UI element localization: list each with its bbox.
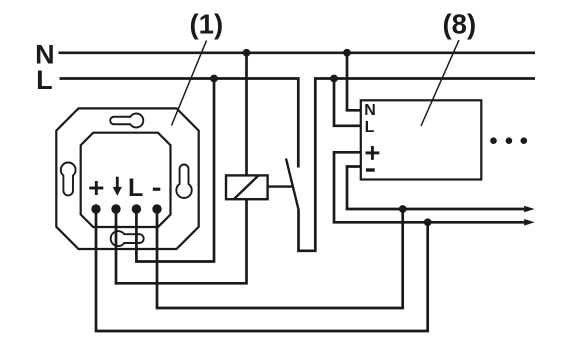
junction on N bus at driver drop: [343, 49, 351, 57]
relay contact lever: [286, 159, 299, 210]
wire N bus to relay coil: [245, 53, 248, 176]
svg-text:L: L: [36, 65, 53, 95]
relay K1 actuator link: [268, 185, 294, 187]
driver pin label minus: [366, 168, 375, 171]
wire dimmer minus to bus minus: [157, 209, 403, 308]
junction plus bus / dimmer plus: [424, 218, 432, 226]
wire dimmer arrow output to relay coil: [116, 199, 247, 283]
arrowhead plus bus: [524, 219, 534, 226]
svg-text:L: L: [365, 119, 375, 136]
relay K1 coil: [226, 175, 268, 199]
wire N bus: [59, 51, 536, 54]
terminal dot pin 4: [152, 204, 161, 213]
svg-text:N: N: [364, 102, 376, 119]
ellipsis dot 2: [506, 137, 513, 144]
terminal label + (pin 1): [89, 181, 103, 195]
wire L bus: [60, 79, 299, 168]
mounting keyhole left: [61, 162, 76, 195]
wire driver plus to plus bus: [334, 152, 525, 222]
wire driver minus to minus bus: [347, 167, 525, 210]
svg-text:(1): (1): [190, 9, 224, 40]
terminal dot pin 2: [111, 204, 120, 213]
mounting keyhole right: [176, 165, 191, 198]
control unit (1) inner frame: [81, 133, 171, 227]
mounting keyhole bottom: [111, 231, 144, 246]
junction on L bus at dimmer drop: [210, 75, 218, 83]
ellipsis dot 3: [521, 137, 528, 144]
control unit (1) outer frame: [56, 108, 198, 249]
terminal label arrow-down (pin 2): [113, 177, 122, 196]
ellipsis dot 1: [490, 137, 497, 144]
terminal label minus (pin 4): [153, 188, 161, 191]
svg-text:L: L: [128, 174, 143, 202]
wire switched-L bus to driver L: [334, 79, 361, 126]
terminal dot pin 1: [91, 204, 100, 213]
terminal dot pin 3: [132, 204, 141, 213]
svg-text:(8): (8): [443, 9, 477, 40]
wire switched-L bus: [299, 79, 536, 251]
mounting keyhole top: [110, 114, 143, 128]
junction on switched-L bus at driver drop: [330, 75, 338, 83]
driver pin label +: [366, 146, 380, 160]
junction minus bus / dimmer minus: [399, 205, 407, 213]
leader line for (8): [421, 40, 459, 126]
leader line for (1): [172, 41, 207, 126]
wire N bus to driver N: [347, 53, 361, 111]
junction on N bus at relay drop: [243, 49, 251, 57]
wire dimmer plus to bus plus: [96, 209, 428, 331]
wire dimmer L terminal to L bus: [136, 79, 214, 262]
arrowhead minus bus: [524, 206, 534, 213]
LED driver (8) body: [361, 100, 482, 179]
